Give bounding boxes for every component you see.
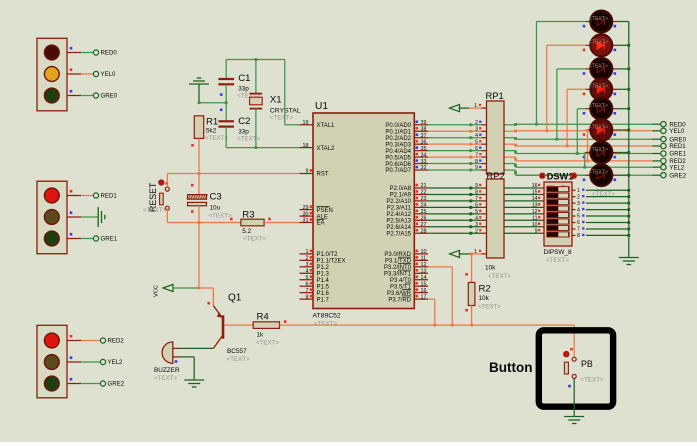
svg-text:RED2: RED2 [108, 338, 125, 345]
wire RP2 to DSW1 pin 15 [504, 190, 544, 196]
svg-text:EA: EA [317, 221, 325, 227]
svg-text:RP1: RP1 [486, 90, 504, 101]
svg-text:33p: 33p [238, 86, 249, 93]
svg-text:C3: C3 [210, 192, 222, 203]
wire TL2 pin 2 [67, 211, 98, 217]
wire LED D5 anode [576, 109, 586, 155]
wire LED D3 cathode [617, 68, 630, 71]
svg-text:5: 5 [577, 214, 580, 220]
svg-text:10k: 10k [485, 265, 496, 272]
svg-text:P0.4/AD4: P0.4/AD4 [385, 149, 411, 155]
svg-text:P2.2/A10: P2.2/A10 [386, 199, 411, 205]
svg-text:Button: Button [489, 360, 532, 375]
svg-text:<TEXT>: <TEXT> [589, 147, 608, 153]
terminal YEL2 [100, 359, 123, 366]
capacitor C2 [218, 103, 260, 148]
svg-text:PSEN: PSEN [317, 208, 333, 214]
svg-text:21: 21 [421, 183, 427, 189]
svg-text:18: 18 [303, 143, 309, 149]
svg-text:P0.1/AD1: P0.1/AD1 [385, 129, 411, 135]
svg-text:4: 4 [577, 207, 580, 213]
svg-text:P1.3: P1.3 [317, 271, 330, 277]
U1 pin P0.6/AD6 (33) [385, 159, 428, 168]
U1 pin P1.2 (3) [300, 262, 330, 271]
wire LED D6 cathode [617, 129, 630, 132]
svg-text:10: 10 [532, 222, 538, 228]
terminal RED0 (right) [652, 121, 686, 128]
traffic light TL2 [37, 181, 67, 254]
svg-text:GRE2: GRE2 [108, 381, 125, 388]
svg-text:PB: PB [581, 359, 593, 369]
resistor R3 [230, 210, 271, 243]
U1 pin EA (31) [300, 218, 325, 227]
svg-text:YEL0: YEL0 [101, 71, 117, 78]
wire P2.3 to RP2 pin 6 [428, 203, 487, 209]
svg-text:5: 5 [475, 209, 478, 215]
svg-text:RST: RST [317, 172, 329, 178]
svg-text:33: 33 [421, 159, 427, 165]
crystal X1 [250, 60, 301, 148]
svg-text:34: 34 [421, 152, 427, 158]
wire right rail to XTAL1 [285, 60, 300, 125]
traffic light TL2 lamp 2 [44, 210, 59, 225]
wire RP2 to DSW1 pin 13 [504, 203, 544, 209]
svg-text:P0.7/AD7: P0.7/AD7 [385, 168, 411, 174]
wire P2.0 to RP2 pin 9 [428, 183, 487, 189]
traffic light TL3 lamp 1 [44, 333, 59, 348]
resistor pack RP1 [486, 90, 505, 174]
capacitor C1 [218, 60, 260, 103]
svg-text:P2.4/A12: P2.4/A12 [386, 212, 411, 218]
terminal GRE0 (right) [652, 136, 686, 143]
svg-text:R4: R4 [257, 312, 270, 323]
svg-text:<TEXT>: <TEXT> [205, 135, 228, 142]
U1 pin P1.3 (4) [300, 268, 330, 277]
svg-text:7: 7 [475, 196, 478, 202]
terminal RED0 [93, 50, 117, 57]
svg-text:<TEXT>: <TEXT> [154, 375, 177, 382]
wire TL1 pin 2 [67, 68, 93, 74]
U1 pin P0.3/AD3 (36) [385, 139, 428, 148]
svg-text:P1.6: P1.6 [317, 291, 330, 297]
wire R3 to EA pin [264, 222, 299, 224]
wire LED D6 anode [586, 130, 589, 162]
svg-text:29: 29 [303, 205, 309, 211]
ground (button) [564, 417, 584, 424]
svg-text:<TEXT>: <TEXT> [589, 84, 608, 90]
svg-text:<TEXT>: <TEXT> [209, 213, 232, 220]
svg-text:4: 4 [475, 216, 478, 222]
svg-text:YEL2: YEL2 [108, 359, 124, 366]
wire P2.7 to RP2 pin 2 [428, 228, 487, 234]
wire P2.4 to RP2 pin 5 [428, 209, 487, 215]
LED D5 [583, 98, 617, 120]
wire net 1 to terminal row [504, 123, 652, 126]
svg-text:P3.7/RD: P3.7/RD [388, 297, 411, 303]
svg-text:26: 26 [421, 216, 427, 222]
svg-text:6: 6 [475, 146, 478, 152]
LED D6 [583, 119, 617, 141]
wire RST net [167, 172, 299, 187]
svg-text:<TEXT>: <TEXT> [256, 340, 279, 347]
wire DSW1 pin 7 to ground bus [572, 227, 630, 233]
wire TL1 pin 1 [67, 47, 93, 53]
svg-text:DIPSW_8: DIPSW_8 [544, 249, 573, 256]
svg-text:C2: C2 [238, 116, 250, 127]
DSW1 text label [592, 191, 615, 198]
svg-text:37: 37 [421, 133, 427, 139]
svg-text:X1: X1 [270, 95, 282, 106]
wire DSW1 pin 4 to ground bus [572, 207, 630, 213]
svg-text:P2.7/A15: P2.7/A15 [386, 231, 411, 237]
wire RP2 to DSW1 pin 10 [504, 222, 544, 228]
wire LED D5 cathode [617, 107, 630, 110]
wire R1 bottom to RST row [191, 138, 199, 173]
wire LED D2 anode [545, 45, 585, 132]
svg-text:10: 10 [421, 249, 427, 255]
wire Q1 base to R4 [224, 324, 253, 326]
svg-text:25: 25 [421, 209, 427, 215]
terminal GRE0 [93, 93, 117, 100]
svg-text:VCC: VCC [154, 285, 160, 297]
svg-text:31: 31 [303, 218, 309, 224]
svg-text:35: 35 [421, 146, 427, 152]
svg-text:5.2: 5.2 [242, 228, 251, 235]
wire RP2 to DSW1 pin 16 [504, 183, 544, 189]
microcontroller U1 AT89C52 [313, 101, 415, 328]
wire TL3 pin 1 [67, 335, 100, 341]
U1 pin P2.3/A11 (24) [387, 203, 428, 212]
traffic light TL1 lamp 2 [44, 67, 59, 82]
wire LED D7 cathode [617, 151, 630, 154]
svg-text:P1.7: P1.7 [317, 297, 330, 303]
svg-text:<TEXT>: <TEXT> [589, 63, 608, 69]
wire P0.1 to RP1 pin 3 [428, 126, 487, 132]
wire LED D1 anode [535, 22, 585, 126]
svg-text:<TEXT>: <TEXT> [488, 273, 511, 280]
ground (buzzer) [184, 380, 204, 387]
svg-text:11: 11 [532, 216, 537, 222]
capacitor C3 [188, 174, 232, 223]
svg-text:9: 9 [475, 183, 478, 189]
svg-text:10u: 10u [210, 205, 221, 212]
terminal GRE2 [100, 381, 124, 388]
traffic light TL1 lamp 1 [44, 45, 59, 60]
U1 pin P2.0/A8 (21) [390, 183, 428, 192]
svg-text:9: 9 [475, 165, 478, 171]
wire DSW1 pin 2 to ground bus [572, 194, 630, 200]
svg-text:27: 27 [421, 222, 427, 228]
U1 pin P0.5/AD5 (34) [385, 152, 428, 161]
svg-text:28: 28 [421, 228, 427, 234]
wire LED D8 anode [516, 174, 586, 176]
wire button to ground [573, 378, 575, 416]
LED D4 [583, 78, 617, 100]
traffic light TL1 lamp 3 [44, 88, 59, 103]
svg-text:XTAL2: XTAL2 [317, 146, 336, 152]
wire P3.2/INT0 to bottom row [428, 267, 454, 327]
U1 pin ALE (30) [300, 211, 328, 220]
terminal GRE2 (right) [652, 172, 686, 179]
wire LED D4 anode [566, 89, 586, 147]
svg-text:P2.5/A13: P2.5/A13 [386, 219, 411, 225]
svg-text:5k2: 5k2 [206, 128, 217, 135]
svg-text:16: 16 [421, 288, 427, 294]
svg-text:12: 12 [532, 209, 538, 215]
wire RP2 to DSW1 pin 12 [504, 209, 544, 215]
U1 pin P2.1/A9 (22) [390, 190, 428, 199]
svg-text:P3.3/INT1: P3.3/INT1 [384, 271, 412, 277]
LED D3 [583, 58, 617, 80]
U1 pin P3.1/TXD (11) [385, 256, 428, 265]
svg-text:8: 8 [577, 233, 580, 239]
svg-text:P2.1/A9: P2.1/A9 [390, 193, 412, 199]
terminal YEL0 [93, 71, 116, 78]
svg-text:GRE0: GRE0 [101, 93, 118, 100]
svg-text:P0.0/AD0: P0.0/AD0 [385, 123, 411, 129]
U1 pin P2.2/A10 (23) [386, 196, 428, 205]
U1 pin XTAL1 (19) [300, 120, 336, 129]
DSW1 label [539, 171, 577, 181]
svg-text:<TEXT>: <TEXT> [270, 115, 293, 122]
svg-text:<TEXT>: <TEXT> [243, 236, 266, 243]
wire DSW1 pin 8 to ground bus [572, 233, 630, 239]
U1 pin P2.6/A14 (27) [386, 222, 428, 231]
svg-text:16: 16 [532, 183, 538, 189]
U1 pin XTAL2 (18) [300, 143, 336, 152]
svg-text:P2.3/A11: P2.3/A11 [387, 206, 412, 212]
wire node R1-top to C column [198, 101, 228, 104]
svg-text:3: 3 [306, 262, 309, 268]
wire P2.1 to RP2 pin 8 [428, 190, 487, 196]
svg-text:1k: 1k [257, 332, 265, 339]
wire RP1 pin 1 to VCC arrow [450, 103, 487, 112]
svg-text:<TEXT>: <TEXT> [143, 207, 166, 214]
LED D8 [583, 164, 617, 186]
svg-text:C1: C1 [238, 73, 250, 84]
wire LED D4 cathode [617, 88, 630, 91]
svg-text:17: 17 [421, 294, 427, 300]
wire net 6 to terminal row [504, 157, 652, 161]
svg-text:5: 5 [306, 275, 309, 281]
svg-text:<TEXT>: <TEXT> [589, 16, 608, 22]
wire P0.0 to RP1 pin 2 [428, 120, 487, 126]
svg-text:P1.5: P1.5 [317, 284, 330, 290]
svg-text:6: 6 [577, 220, 580, 226]
wire P0.3 to RP1 pin 5 [428, 139, 487, 145]
wire P0.2 to RP1 pin 4 [428, 133, 487, 139]
svg-text:P1.0/T2: P1.0/T2 [317, 252, 339, 258]
svg-text:<TEXT>: <TEXT> [589, 103, 608, 109]
svg-text:7: 7 [475, 152, 478, 158]
wire ground bus [628, 22, 630, 258]
svg-text:2: 2 [475, 228, 478, 234]
wire P0.7 to RP1 pin 9 [428, 165, 487, 171]
U1 pin P1.4 (5) [300, 275, 330, 284]
svg-text:P0.6/AD6: P0.6/AD6 [385, 162, 411, 168]
svg-text:<TEXT>: <TEXT> [478, 304, 501, 311]
svg-text:7: 7 [577, 227, 580, 233]
svg-text:1: 1 [306, 249, 309, 255]
wire EA row [167, 208, 241, 224]
svg-text:RED1: RED1 [101, 193, 118, 200]
svg-text:P0.3/AD3: P0.3/AD3 [385, 142, 411, 148]
terminal GRE1 [93, 236, 117, 243]
ground (LED/DSW bus) [619, 258, 639, 265]
ground (traffic light TL2 mid) [98, 207, 105, 227]
U1 pin P3.7/RD (17) [388, 294, 428, 303]
U1 pin P2.5/A13 (26) [386, 216, 428, 225]
traffic light TL2 lamp 1 [44, 188, 59, 203]
LED D1 [583, 11, 617, 33]
svg-text:23: 23 [421, 196, 427, 202]
svg-text:3: 3 [577, 201, 580, 207]
wire buzzer to ground [179, 357, 194, 380]
svg-text:1: 1 [474, 249, 477, 255]
U1 pin P1.1/T2EX (2) [300, 256, 346, 265]
resistor R4 [253, 312, 279, 347]
U1 pin P0.7/AD7 (32) [385, 165, 428, 174]
wire DSW1 pin 3 to ground bus [572, 201, 630, 207]
terminal YEL0 (right) [652, 128, 685, 135]
svg-text:11: 11 [421, 256, 427, 262]
svg-text:XTAL1: XTAL1 [317, 123, 336, 129]
svg-text:<TEXT>: <TEXT> [227, 356, 250, 363]
svg-text:10k: 10k [479, 295, 490, 302]
svg-text:YEL0: YEL0 [669, 128, 685, 135]
svg-text:39: 39 [421, 120, 427, 126]
svg-text:<TEXT>: <TEXT> [589, 170, 608, 176]
U1 pin P2.4/A12 (25) [386, 209, 428, 218]
svg-text:<TEXT>: <TEXT> [589, 124, 608, 130]
svg-text:P2.6/A14: P2.6/A14 [386, 225, 411, 231]
push button RESET [143, 180, 169, 214]
wire P2.6 to RP2 pin 3 [428, 222, 487, 228]
svg-text:2: 2 [306, 256, 309, 262]
svg-text:P0.2/AD2: P0.2/AD2 [385, 136, 411, 142]
svg-text:6: 6 [475, 203, 478, 209]
svg-text:4: 4 [306, 268, 309, 274]
terminal RED1 [93, 193, 117, 200]
wire RP2 to DSW1 pin 9 [504, 228, 544, 234]
svg-text:AT89C52: AT89C52 [313, 313, 341, 320]
svg-text:R1: R1 [206, 117, 218, 128]
U1 pin P0.4/AD4 (35) [385, 146, 428, 155]
traffic light TL1 [37, 38, 67, 111]
terminal GRE1 (right) [652, 151, 686, 158]
svg-text:BC557: BC557 [227, 348, 247, 355]
wire P2.5 to RP2 pin 4 [428, 216, 487, 222]
svg-text:U1: U1 [315, 101, 328, 112]
svg-text:12: 12 [421, 262, 427, 268]
U1 pin P2.7/A15 (28) [386, 228, 428, 237]
svg-text:6: 6 [306, 281, 309, 287]
svg-text:GRE2: GRE2 [669, 172, 686, 179]
svg-text:P2.0/A8: P2.0/A8 [390, 186, 412, 192]
wire net 3 to terminal row [504, 137, 652, 140]
resistor R1 [194, 116, 228, 142]
wire bottom row to button [435, 325, 574, 357]
svg-text:1: 1 [577, 188, 580, 194]
LED D2 [583, 34, 617, 56]
svg-text:36: 36 [421, 139, 427, 145]
U1 pin P1.5 (6) [300, 281, 330, 290]
svg-text:15: 15 [532, 190, 538, 196]
traffic light TL3 [37, 325, 67, 398]
wire net 5 to terminal row [504, 151, 652, 154]
svg-text:5: 5 [475, 139, 478, 145]
svg-text:13: 13 [421, 268, 427, 274]
wire LED D8 cathode [617, 174, 630, 177]
wire P2.2 to RP2 pin 7 [428, 196, 487, 202]
wire DSW1 pin 6 to ground bus [572, 220, 630, 226]
wire RP2 to DSW1 pin 11 [504, 216, 544, 222]
svg-text:15: 15 [421, 281, 427, 287]
LED D7 [583, 142, 617, 164]
wire net 2 to terminal row [504, 130, 652, 133]
wire RP2 to DSW1 pin 14 [504, 196, 544, 202]
svg-text:2: 2 [475, 120, 478, 126]
svg-text:DSW1: DSW1 [547, 171, 574, 181]
svg-text:<TEXT>: <TEXT> [546, 257, 569, 264]
wire top rail [226, 58, 285, 61]
U1 pin P3.6/WR (16) [387, 288, 428, 297]
wire R4 to P3.7 and bottom row [280, 299, 437, 326]
transistor Q1 [213, 293, 250, 364]
wire TL3 pin 2 [67, 356, 100, 362]
traffic light TL2 lamp 3 [44, 231, 59, 246]
svg-text:1: 1 [474, 103, 477, 109]
svg-text:RED0: RED0 [101, 50, 118, 57]
wire LED D2 cathode [617, 44, 630, 47]
dip switch DSW1 [544, 182, 573, 264]
svg-text:8: 8 [475, 159, 478, 165]
svg-text:14: 14 [532, 196, 538, 202]
U1 pin P1.6 (7) [300, 288, 330, 297]
power VCC [154, 284, 200, 297]
svg-text:P0.5/AD5: P0.5/AD5 [385, 155, 411, 161]
svg-text:3: 3 [475, 222, 478, 228]
svg-text:4: 4 [475, 133, 478, 139]
svg-text:YEL2: YEL2 [669, 164, 685, 171]
svg-text:2: 2 [577, 194, 580, 200]
svg-text:14: 14 [421, 275, 427, 281]
wire TL3 pin 3 [67, 378, 100, 384]
U1 pin P0.0/AD0 (39) [385, 120, 428, 129]
wire VCC row to Q1 [198, 287, 214, 306]
traffic light TL3 lamp 2 [44, 355, 59, 370]
svg-text:P1.1/T2EX: P1.1/T2EX [317, 259, 346, 265]
svg-text:32: 32 [421, 165, 427, 171]
U1 pin P0.1/AD1 (38) [385, 126, 428, 135]
wire VCC column [198, 223, 200, 289]
svg-text:GRE1: GRE1 [101, 236, 118, 243]
svg-text:13: 13 [532, 203, 538, 209]
U1 pin RST (9) [300, 169, 329, 178]
U1 pin P3.5/T1 (15) [390, 281, 428, 290]
svg-text:P1.4: P1.4 [317, 278, 330, 284]
U1 pin P1.7 (8) [300, 294, 330, 303]
svg-text:7: 7 [306, 288, 309, 294]
wire TL2 pin 3 [67, 233, 93, 239]
U1 pin P3.3/INT1 (13) [384, 268, 428, 277]
resistor pack RP2 [485, 170, 511, 280]
terminal YEL2 (right) [652, 164, 685, 171]
U1 pin P1.0/T2 (1) [300, 249, 339, 258]
wire TL1 pin 3 [67, 90, 93, 96]
terminal RED1 (right) [652, 143, 686, 150]
svg-text:30: 30 [303, 211, 309, 217]
